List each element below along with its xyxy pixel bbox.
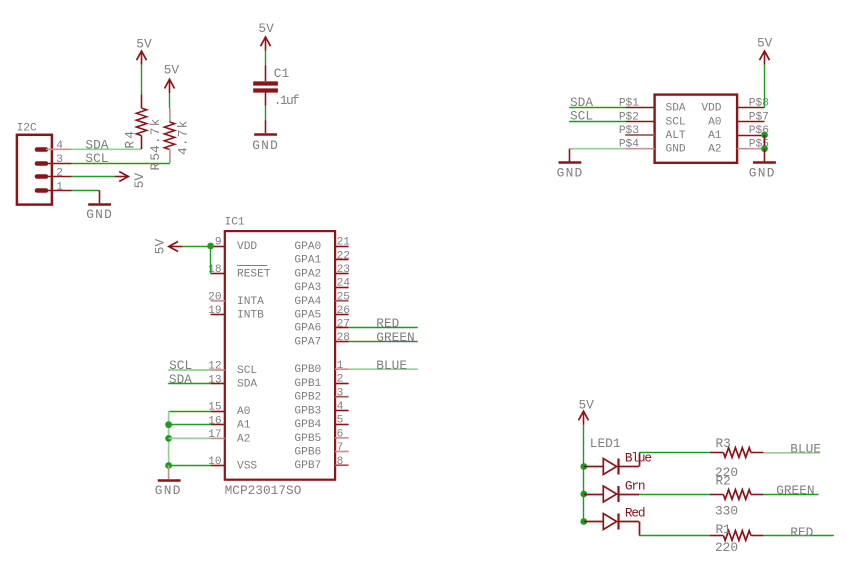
IC1 pin 24 line [335, 287, 349, 289]
supply 5V arrow (right) at I2C pin2 [115, 172, 129, 182]
wire 5V to R5 [169, 93, 171, 108]
IC1 pin 8 line [335, 464, 349, 466]
svg-text:4.7k: 4.7k [175, 119, 190, 155]
svg-text:4: 4 [337, 401, 344, 413]
IC U1 name label IC1 [225, 216, 245, 228]
IC1 pin 27 number [337, 318, 350, 330]
svg-text:GND: GND [86, 207, 113, 222]
net label BLUE at IC1 [376, 358, 407, 373]
junction node VSS [165, 462, 172, 469]
LED1 blue diode [584, 459, 639, 475]
module pin P$8 line [737, 107, 764, 109]
wire 5V to IC1 pin9 [183, 246, 211, 248]
supply 5V arrow (left) at IC1 pin9 [169, 242, 183, 252]
supply 5V label above R4 [136, 37, 152, 52]
I2C pin 3 line [46, 163, 72, 165]
IC1 pin 13 number [208, 374, 221, 386]
svg-text:A2: A2 [708, 144, 721, 156]
svg-text:2: 2 [337, 374, 344, 386]
wire net SCL (I2C pin3 to R5) [72, 163, 170, 165]
module pin P$6 line [737, 135, 764, 137]
svg-text:GPB3: GPB3 [294, 405, 321, 417]
wire 5V (I2C pin2) [72, 176, 115, 178]
module pin label P$7 [749, 111, 769, 123]
net label SDA at module [570, 95, 593, 110]
svg-text:P$8: P$8 [749, 98, 769, 110]
svg-text:5V: 5V [258, 21, 274, 36]
module pin P$7 line [737, 121, 764, 123]
supply 5V label (rotated) at I2C pin2 [132, 173, 147, 189]
wire blue jog up [639, 453, 641, 467]
resistor R3 [710, 448, 764, 458]
net label BLUE right [790, 441, 821, 456]
module pin name A2 [708, 144, 721, 156]
IC1 pin 17 line [211, 437, 225, 439]
IC1 pin name GPA4 [294, 296, 321, 308]
ground symbol at module right [753, 149, 776, 163]
junction node LED blue anode [580, 463, 587, 470]
connector I2C name label [17, 122, 37, 134]
IC1 pin 15 number [208, 402, 221, 414]
IC1 pin name SDA [237, 379, 257, 391]
wire 5V to module P$8 [764, 65, 766, 108]
svg-text:SCL: SCL [237, 365, 257, 377]
IC1 pin 2 number [337, 374, 344, 386]
svg-text:GPA4: GPA4 [294, 296, 321, 308]
supply 5V arrow above C1 [261, 37, 271, 51]
svg-text:R4: R4 [123, 129, 138, 149]
svg-text:GPA3: GPA3 [294, 282, 321, 294]
svg-text:27: 27 [337, 318, 350, 330]
wire net SCL to module P$2 [569, 121, 625, 123]
module pin P$5 line [737, 148, 764, 150]
wire P$6 to P$5 (address tie) [764, 135, 766, 149]
wire net RED at IC1 pin27 [349, 327, 418, 329]
svg-text:A1: A1 [708, 130, 722, 142]
junction node at IC1 pin 9 [207, 243, 214, 250]
IC1 pin name GPB5 [294, 433, 321, 445]
IC1 pin 16 number [208, 415, 221, 427]
svg-text:INTA: INTA [237, 296, 264, 308]
svg-text:9: 9 [215, 237, 222, 249]
supply 5V arrow above R5 [165, 79, 175, 93]
IC1 pin 15 line [211, 411, 225, 413]
svg-text:5V: 5V [132, 173, 147, 189]
ground label GND below IC1 [155, 483, 182, 498]
IC1 pin 26 line [335, 314, 349, 316]
IC1 pin name GPB0 [294, 364, 321, 376]
IC1 pin 18 line [211, 273, 225, 275]
IC1 pin 20 number [208, 291, 222, 303]
IC1 pin name INTB [237, 310, 264, 322]
IC1 pin 5 number [337, 415, 344, 427]
module pin label P$8 [749, 98, 769, 110]
IC1 pin 10 number [208, 456, 222, 468]
IC1 pin 4 line [335, 410, 349, 412]
resistor R4 [136, 94, 146, 149]
svg-text:23: 23 [337, 264, 350, 276]
wire A2 [169, 437, 211, 439]
svg-text:4.7k: 4.7k [148, 117, 163, 153]
svg-text:5V: 5V [757, 36, 773, 51]
IC1 pin 18 number [208, 264, 221, 276]
op-amp/IC IC1 body [225, 231, 335, 480]
IC1 pin name GPA3 [294, 282, 321, 294]
LED1 green diode [584, 486, 639, 502]
svg-text:GPB1: GPB1 [294, 378, 321, 390]
IC1 pin 16 line [211, 424, 225, 426]
svg-text:GPB0: GPB0 [294, 364, 321, 376]
ground label GND at module left [557, 166, 584, 181]
svg-text:SDA: SDA [666, 103, 686, 115]
connector I2C body [17, 135, 52, 205]
value 220 of R1 [715, 540, 738, 555]
module pin name GND [666, 144, 686, 156]
supply 5V label above R5 [164, 63, 180, 78]
wire net BLUE at IC1 pin1 [349, 368, 418, 370]
wire net SDA to module P$1 [569, 107, 625, 109]
IC1 pin name A1 [237, 420, 251, 432]
svg-text:1: 1 [56, 181, 63, 193]
svg-text:A0: A0 [708, 116, 722, 128]
IC1 pin 5 line [335, 424, 349, 426]
label R5 (rotated) [148, 151, 163, 171]
resistor R1 [710, 531, 764, 541]
wire 5V to R4 [141, 65, 143, 95]
IC1 pin 2 line [335, 383, 349, 385]
wire red to R1 [639, 535, 710, 537]
svg-text:R1: R1 [716, 522, 732, 537]
ground symbol at module P$4 [559, 149, 582, 163]
wire net GREEN right [763, 494, 818, 496]
IC1 pin name GPA1 [294, 255, 321, 267]
svg-text:GND: GND [252, 138, 279, 153]
wire net SCL to IC1 pin12 [168, 369, 210, 371]
I2C pin 2 number [56, 168, 63, 180]
IC1 pin 25 number [337, 291, 350, 303]
IC1 pin 7 line [335, 451, 349, 453]
svg-text:8: 8 [337, 456, 344, 468]
svg-text:A1: A1 [237, 420, 251, 432]
svg-text:RESET: RESET [237, 268, 271, 280]
label R3 [716, 436, 731, 451]
IC1 pin name GPA2 [294, 268, 321, 280]
svg-text:Red: Red [625, 505, 645, 520]
svg-text:I2C: I2C [17, 122, 37, 134]
svg-text:RED: RED [376, 316, 399, 331]
IC1 pin 20 line [211, 300, 225, 302]
IC1 pin 1 line [335, 368, 349, 370]
svg-text:5: 5 [337, 415, 344, 427]
svg-text:GPA5: GPA5 [294, 310, 321, 322]
supply 5V label at LED1 [579, 398, 595, 413]
module pin P$4 line [625, 148, 654, 150]
IC1 pin name A0 [237, 406, 251, 418]
svg-text:GREEN: GREEN [776, 483, 814, 498]
net label GREEN at IC1 [376, 330, 414, 345]
module pin name SCL [666, 116, 686, 128]
IC1 pin 4 number [337, 401, 344, 413]
net label SDA at IC1 [169, 372, 192, 387]
IC1 pin name INTA [237, 296, 264, 308]
svg-text:A0: A0 [237, 406, 251, 418]
label Blue [625, 450, 651, 465]
svg-text:GND: GND [557, 166, 584, 181]
svg-text:GPA6: GPA6 [294, 323, 321, 335]
IC1 pin 10 line [211, 465, 225, 467]
IC1 pin 26 number [337, 305, 350, 317]
label Red [625, 505, 645, 520]
svg-text:GPB4: GPB4 [294, 419, 321, 431]
svg-text:Grn: Grn [625, 478, 645, 493]
svg-text:BLUE: BLUE [790, 441, 821, 456]
IC1 pin 1 number [337, 360, 344, 372]
supply 5V arrow above R4 [137, 51, 147, 65]
svg-text:GPA1: GPA1 [294, 255, 321, 267]
value 330 of R2 [715, 504, 738, 519]
svg-text:P$3: P$3 [619, 125, 639, 137]
svg-text:VDD: VDD [701, 103, 721, 115]
svg-text:26: 26 [337, 305, 350, 317]
IC1 pin 9 line [211, 246, 225, 248]
resistor R5 [164, 108, 174, 163]
IC1 pin 3 line [335, 396, 349, 398]
module pin name A0 [708, 116, 722, 128]
supply 5V arrow at module right [760, 51, 770, 65]
module pin label P$5 [749, 139, 769, 151]
IC1 pin 23 number [337, 264, 350, 276]
IC1 pin name GPB4 [294, 419, 321, 431]
value 220 of R3 [715, 465, 738, 480]
module pin P$2 line [625, 121, 654, 123]
wire blue to R3 [639, 452, 710, 454]
wire net BLUE right [763, 452, 819, 454]
wire net RED right [763, 535, 834, 537]
svg-text:GND: GND [749, 166, 776, 181]
svg-text:GPA7: GPA7 [294, 336, 321, 348]
module pin P$1 line [625, 107, 654, 109]
IC1 pin name GPB6 [294, 447, 321, 459]
module pin name VDD [701, 103, 721, 115]
svg-text:2: 2 [56, 168, 63, 180]
IC1 pin name GPB3 [294, 405, 321, 417]
svg-text:5V: 5V [136, 37, 152, 52]
IC1 pin name A2 [237, 433, 250, 445]
IC1 pin 7 number [337, 442, 344, 454]
net label SCL [85, 151, 108, 166]
svg-text:GPB5: GPB5 [294, 433, 321, 445]
wire net SDA to IC1 pin13 [168, 383, 210, 385]
net label SDA [85, 137, 108, 152]
svg-text:16: 16 [208, 415, 221, 427]
module pin P$3 line [625, 134, 654, 136]
module pin label P$3 [619, 125, 639, 137]
label LED1 [590, 436, 621, 451]
IC1 pin 28 number [337, 332, 350, 344]
I2C pin 2 line [46, 176, 72, 178]
wire A0 to GND [169, 411, 211, 413]
IC1 pin 28 line [335, 341, 349, 343]
net label RED at IC1 [376, 316, 399, 331]
svg-text:INTB: INTB [237, 310, 264, 322]
ground label GND at I2C [86, 207, 113, 222]
IC1 pin 12 line [211, 369, 225, 371]
svg-text:SCL: SCL [666, 116, 686, 128]
svg-text:VDD: VDD [237, 241, 257, 253]
svg-text:24: 24 [337, 278, 351, 290]
svg-text:3: 3 [337, 387, 344, 399]
IC1 pin 17 number [208, 429, 221, 441]
svg-text:13: 13 [208, 374, 221, 386]
label Grn [625, 478, 645, 493]
label R1 [716, 522, 732, 537]
IC1 pin name GPB2 [294, 392, 321, 404]
svg-text:7: 7 [337, 442, 344, 454]
wire C1 to GND [265, 106, 267, 121]
I2C pin 4 line [46, 148, 72, 150]
IC1 pin 13 line [211, 383, 225, 385]
module U$1 body (I2C port expander header) [655, 95, 738, 163]
svg-text:LED1: LED1 [590, 436, 621, 451]
wire 5V to LED anodes [583, 425, 585, 467]
wire 5V to C1 [265, 51, 267, 66]
I2C pin 1 line [46, 190, 72, 192]
svg-text:25: 25 [337, 291, 350, 303]
IC1 pin name RESET with overline [237, 266, 271, 281]
IC1 pin 12 number [208, 361, 221, 373]
svg-text:5V: 5V [579, 398, 595, 413]
svg-text:GREEN: GREEN [376, 330, 414, 345]
svg-text:21: 21 [337, 237, 351, 249]
wire GND (I2C pin1) [72, 190, 100, 192]
ground symbol at I2C pin1 [88, 190, 111, 204]
module pin name A1 [708, 130, 722, 142]
junction node A1 [165, 421, 172, 428]
supply 5V label at module right [757, 36, 773, 51]
svg-text:C1: C1 [274, 66, 290, 81]
svg-text:ALT: ALT [666, 130, 686, 142]
ground label GND below C1 [252, 138, 279, 153]
svg-text:R2: R2 [716, 473, 731, 488]
IC1 value label MCP23017SO [225, 483, 302, 498]
IC1 pin name SCL [237, 365, 257, 377]
wire green to R2 [639, 494, 710, 496]
net label GREEN right [776, 483, 814, 498]
supply 5V label above C1 [258, 21, 274, 36]
svg-text:5V: 5V [164, 63, 180, 78]
ground label GND at module right [749, 166, 776, 181]
module pin name ALT [666, 130, 686, 142]
capacitor C1 [253, 66, 278, 106]
svg-text:VSS: VSS [237, 461, 257, 473]
value 4.7k of R4 (rotated) [148, 117, 163, 153]
net label RED right [790, 525, 813, 540]
IC1 pin 22 line [335, 259, 349, 261]
IC1 pin 23 line [335, 273, 349, 275]
svg-text:GPB6: GPB6 [294, 447, 321, 459]
supply 5V arrow at LED1 [579, 411, 589, 425]
svg-text:GND: GND [666, 144, 686, 156]
svg-text:GND: GND [155, 483, 182, 498]
ground symbol below IC1 [158, 466, 181, 481]
IC1 pin 8 number [337, 456, 344, 468]
svg-text:.1uf: .1uf [274, 93, 299, 108]
module pin label P$1 [619, 98, 639, 110]
label R2 [716, 473, 731, 488]
svg-text:BLUE: BLUE [376, 358, 407, 373]
svg-text:19: 19 [208, 305, 221, 317]
svg-text:5V: 5V [153, 239, 168, 255]
wire net SDA (I2C pin4 to R4) [72, 148, 141, 150]
IC1 pin name VSS [237, 461, 257, 473]
value .1uf of C1 [274, 93, 299, 108]
IC1 pin name GPA5 [294, 310, 321, 322]
label R4 (rotated) [123, 129, 138, 149]
wire vertical A0-A1-A2-VSS [168, 411, 170, 466]
svg-text:IC1: IC1 [225, 216, 245, 228]
junction node LED red anode [580, 518, 587, 525]
svg-text:A2: A2 [237, 433, 250, 445]
IC1 pin 24 number [337, 278, 351, 290]
value 4.7k of R5 (rotated) [175, 119, 190, 155]
net label SCL at module [570, 109, 593, 124]
module pin label P$2 [619, 111, 639, 123]
net label SCL at IC1 [169, 358, 192, 373]
svg-text:R5: R5 [148, 151, 163, 171]
wire A1 [169, 424, 211, 426]
svg-text:GPA0: GPA0 [294, 241, 321, 253]
IC1 pin 21 line [335, 246, 349, 248]
I2C pin 1 number [56, 181, 63, 193]
module pin name SDA [666, 103, 686, 115]
supply 5V label (rotated) at IC1 pin9 [153, 239, 168, 255]
resistor R2 [710, 490, 764, 500]
IC1 pin name GPB1 [294, 378, 321, 390]
svg-text:330: 330 [715, 504, 738, 519]
svg-text:RED: RED [790, 525, 813, 540]
svg-text:P$7: P$7 [749, 111, 769, 123]
IC1 pin name GPA7 [294, 336, 321, 348]
I2C pin 3 number [56, 154, 63, 166]
svg-text:GPB7: GPB7 [294, 460, 321, 472]
IC1 pin 25 line [335, 300, 349, 302]
wire red jog down [639, 522, 641, 536]
IC1 pin 3 number [337, 387, 344, 399]
IC1 pin name GPB7 [294, 460, 321, 472]
svg-text:R3: R3 [716, 436, 731, 451]
svg-text:22: 22 [337, 250, 350, 262]
IC1 pin 21 number [337, 237, 351, 249]
label C1 [274, 66, 290, 81]
IC1 pin 27 line [335, 327, 349, 329]
junction node A2 [165, 435, 172, 442]
svg-text:SDA: SDA [237, 379, 257, 391]
IC1 pin 6 number [337, 428, 344, 440]
IC1 pin name VDD [237, 241, 257, 253]
junction node LED green anode [580, 491, 587, 498]
wire VSS [169, 465, 211, 467]
svg-text:MCP23017SO: MCP23017SO [225, 483, 302, 498]
IC1 pin 19 line [211, 314, 225, 316]
IC1 pin name GPA0 [294, 241, 321, 253]
IC1 pin 19 number [208, 305, 221, 317]
svg-text:6: 6 [337, 428, 344, 440]
svg-text:SDA: SDA [169, 372, 192, 387]
junction node at module P$5 [761, 145, 768, 152]
svg-text:28: 28 [337, 332, 350, 344]
svg-text:1: 1 [337, 360, 344, 372]
svg-text:10: 10 [208, 456, 222, 468]
